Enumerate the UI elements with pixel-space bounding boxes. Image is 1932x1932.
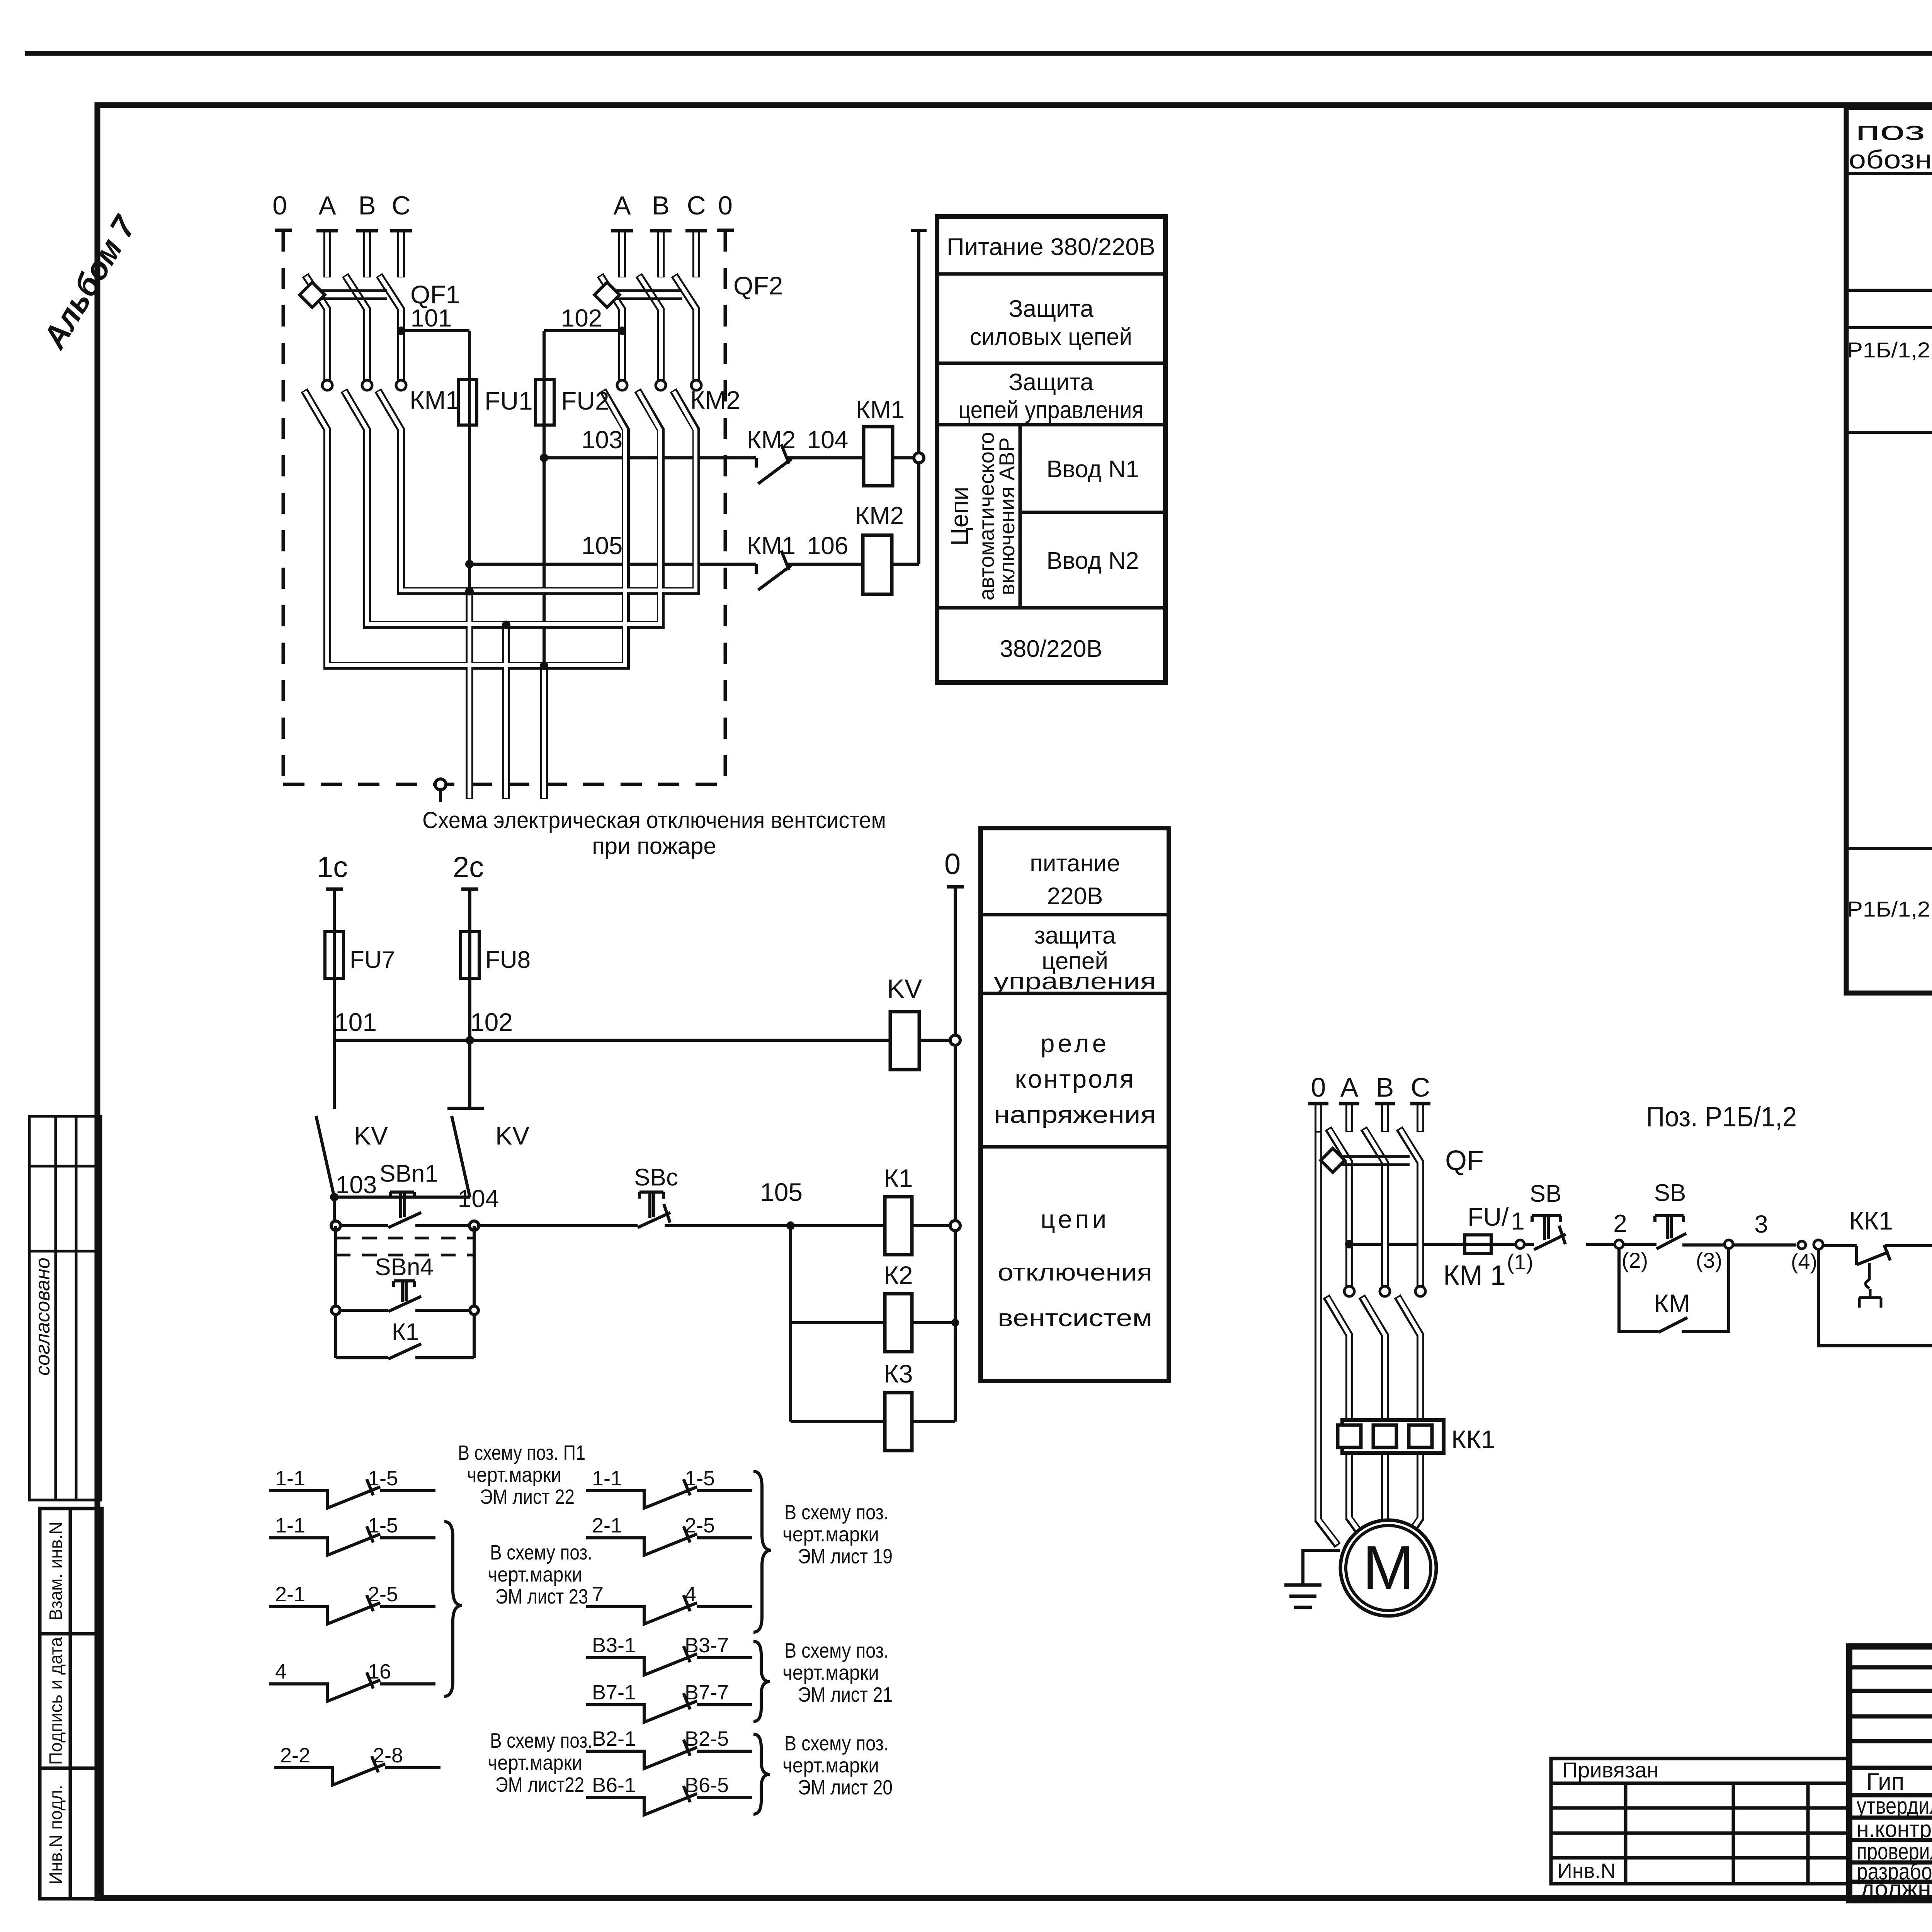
svg-text:В: В [1376,1072,1394,1102]
coil K2 [885,1294,912,1352]
svg-text:К1: К1 [884,1164,913,1192]
contact diagram A5 [274,1756,440,1785]
coil KV [890,1012,919,1070]
svg-text:В схему поз.: В схему поз. [784,1732,889,1755]
contact diagram A4 [269,1672,435,1701]
svg-text:1-5: 1-5 [368,1467,398,1490]
svg-text:103: 103 [336,1171,377,1199]
svg-text:FU7: FU7 [350,947,395,973]
title block privyazan table [1551,1759,1849,1884]
svg-text:SBn4: SBn4 [375,1254,434,1281]
svg-text:QF2: QF2 [733,271,783,300]
brace group A [444,1522,462,1696]
QF1 handle square [299,282,325,307]
motor power hollow outer [1318,1103,1420,1546]
KV NO contact [316,1040,334,1197]
svg-text:КК1: КК1 [1849,1206,1893,1235]
svg-text:ЭМ лист 20: ЭМ лист 20 [798,1776,893,1799]
svg-text:А: А [1340,1072,1359,1102]
svg-text:В7-7: В7-7 [685,1681,729,1704]
svg-text:силовых цепей: силовых цепей [970,324,1132,350]
svg-text:согласовано: согласовано [32,1257,54,1376]
svg-text:при пожаре: при пожаре [592,833,716,859]
svg-text:2-1: 2-1 [592,1514,622,1537]
neutral bus of coils [911,230,927,564]
svg-text:Подпись и дата: Подпись и дата [46,1637,66,1765]
K3 row [791,1420,955,1423]
component table grid [1846,107,1932,993]
svg-text:1: 1 [1511,1207,1525,1235]
node 4 connector circles [1798,1241,1806,1249]
button SBn1 [388,1192,421,1228]
junction dots AVR [397,327,626,670]
AVR enclosure dashed neutral left [283,230,725,784]
svg-text:черт.марки: черт.марки [488,1751,582,1774]
svg-text:2-2: 2-2 [280,1744,310,1767]
KM selfhold branch [1619,1244,1729,1332]
svg-text:102: 102 [561,304,602,332]
svg-text:Цепи: Цепи [946,486,973,546]
svg-text:KV: KV [495,1121,529,1150]
node 1 [1516,1240,1524,1248]
svg-text:Защита: Защита [1009,296,1094,322]
svg-text:В схему поз.: В схему поз. [784,1501,889,1524]
KM2 aux NC contact [756,444,791,484]
QF motor handle square [1321,1148,1345,1172]
contact diagram B4 [586,1646,752,1675]
contact diagram B3 [586,1595,752,1624]
svg-text:1-1: 1-1 [275,1467,305,1490]
KK1 thermal element [1859,1263,1881,1308]
svg-text:Инв.N: Инв.N [1557,1859,1616,1883]
svg-text:1-5: 1-5 [685,1467,715,1490]
svg-text:ЭМ лист 22: ЭМ лист 22 [480,1485,575,1509]
svg-text:Поз. Р1Б/1,2: Поз. Р1Б/1,2 [1646,1102,1797,1133]
svg-text:FU2: FU2 [561,386,609,415]
fire wire FU8 vertical [468,889,471,1040]
wire 101 rail fire [334,1039,955,1042]
svg-text:КМ: КМ [1654,1289,1690,1318]
neutral pass circle on dashed bottom [435,779,446,790]
svg-text:М: М [1362,1533,1414,1602]
left lower stamp table [40,1509,102,1899]
contact K1 row [336,1344,474,1359]
svg-text:7: 7 [592,1583,604,1606]
svg-text:KV: KV [354,1121,388,1150]
svg-text:SBc: SBc [634,1164,678,1191]
svg-text:104: 104 [807,426,849,454]
svg-text:2-1: 2-1 [275,1583,305,1606]
button SB stop [1532,1216,1566,1250]
fire wire FU7 vertical [333,889,336,1040]
svg-text:В схему поз.: В схему поз. [784,1639,889,1662]
K branch vertical [789,1226,792,1422]
svg-text:SBn1: SBn1 [379,1160,438,1187]
svg-text:Взам. инв.N: Взам. инв.N [46,1522,66,1621]
QF motor mechanical tie [1331,1156,1410,1165]
svg-text:Привязан: Привязан [1562,1758,1659,1782]
svg-text:103: 103 [582,426,623,454]
junction dot FU8 rail [466,1036,474,1044]
contact diagram B5 [586,1693,752,1722]
contact diagram A1 [269,1479,435,1508]
motor power hollow core [1318,1104,1420,1544]
svg-text:4: 4 [685,1583,696,1606]
svg-text:4: 4 [275,1660,287,1683]
svg-text:380/220В: 380/220В [1000,636,1102,662]
svg-text:2-5: 2-5 [685,1514,715,1537]
svg-text:FU1: FU1 [485,386,533,415]
svg-text:0: 0 [944,848,961,881]
svg-text:С: С [391,191,410,220]
contact diagram A3 [269,1595,435,1624]
svg-text:SB: SB [1530,1180,1562,1207]
junction dot control tap [1345,1240,1354,1248]
svg-text:2-8: 2-8 [373,1744,403,1767]
brace group B3 [753,1734,770,1814]
QF2 handle square [594,282,619,307]
svg-text:ЭМ лист22: ЭМ лист22 [495,1773,584,1796]
KM selfhold NO contact [1658,1318,1687,1332]
junction dot 103 [330,1193,338,1201]
svg-text:0: 0 [718,191,733,220]
power poles hollow outer [304,230,696,799]
AVR enclosure dashed neutral right [724,230,727,784]
svg-text:должн.: должн. [1861,1876,1932,1901]
svg-text:Р1Б/1,2: Р1Б/1,2 [1847,338,1930,362]
QF2 lower contact circles [617,380,627,390]
svg-text:обозн: обозн [1849,145,1932,174]
wire 106 [788,563,863,566]
svg-text:управления: управления [994,968,1156,994]
svg-text:0: 0 [272,191,287,220]
fuse FU motor [1465,1235,1491,1253]
svg-text:А: А [613,191,631,220]
wire node4 to KK1 [1823,1246,1932,1265]
svg-text:101: 101 [411,304,452,332]
motor control tap wire [1349,1243,1465,1246]
node circle SBn1 right [469,1221,479,1230]
junction dots SBn4 row [332,1306,340,1315]
svg-text:КМ1: КМ1 [747,532,796,560]
ground symbol [1284,1585,1321,1607]
svg-text:Ввод N2: Ввод N2 [1046,548,1139,574]
svg-text:3: 3 [1754,1210,1768,1238]
neutral terminal cap right [717,229,734,232]
coil KM2 [863,535,892,594]
wire KM1 coil to node [893,456,919,459]
terminal caps motor [1308,1102,1430,1105]
wire KM2 coil to bus [892,563,919,566]
svg-text:ЭМ лист 23: ЭМ лист 23 [495,1585,588,1608]
svg-text:KV: KV [887,974,922,1003]
svg-text:вентсистем: вентсистем [998,1305,1152,1332]
svg-text:В: В [358,191,376,220]
terminal caps right group [611,229,707,233]
svg-text:защита: защита [1034,922,1116,949]
junction dot K2 rail [951,1319,959,1327]
svg-text:2-5: 2-5 [368,1583,398,1606]
QF1 lower contact circles [322,380,701,390]
svg-text:КМ1: КМ1 [856,396,905,423]
QF2 mechanical tie [604,291,682,299]
HL branch [1818,1245,1932,1346]
contact diagram B1 [586,1479,752,1508]
wire 104 [788,456,864,459]
node circle after KM1 coil [914,453,924,463]
svg-text:КМ2: КМ2 [747,426,796,454]
svg-text:В6-5: В6-5 [685,1774,729,1797]
main rail 104-105 [336,1224,955,1227]
svg-text:С: С [687,191,706,220]
KK1 heater block [1342,1420,1444,1453]
svg-text:поз: поз [1855,116,1925,146]
svg-text:ЭМ лист 21: ЭМ лист 21 [798,1683,893,1706]
svg-text:цепи: цепи [1041,1205,1109,1233]
svg-text:К3: К3 [884,1359,913,1388]
svg-text:1с: 1с [317,851,348,884]
node circle KV rail [950,1035,960,1045]
brace group B1 [753,1471,771,1632]
wire FU1 drop [468,331,471,591]
QF1 mechanical tie [309,291,387,299]
svg-text:102: 102 [470,1008,513,1036]
coil KM1 [864,427,893,486]
svg-text:черт.марки: черт.марки [488,1563,582,1586]
svg-text:КК1: КК1 [1451,1425,1495,1454]
svg-text:FU8: FU8 [485,947,531,973]
svg-text:цепей управления: цепей управления [958,397,1144,423]
svg-text:КМ1: КМ1 [410,386,460,414]
main title block grid [1849,1646,1932,1900]
svg-text:(3): (3) [1696,1248,1722,1272]
svg-text:QF: QF [1445,1145,1484,1176]
button SBc [638,1192,670,1228]
wire node2 segment [1586,1244,1796,1245]
svg-text:черт.марки: черт.марки [782,1523,879,1546]
svg-text:FU/: FU/ [1468,1202,1509,1231]
svg-text:В схему поз. П1: В схему поз. П1 [458,1441,585,1464]
svg-text:1-1: 1-1 [275,1514,305,1537]
contact diagram A2 [269,1526,435,1555]
mechanical link dashed [336,1238,474,1255]
svg-text:КМ 1: КМ 1 [1443,1260,1506,1291]
svg-text:Ввод N1: Ввод N1 [1046,456,1139,483]
KK1 NC contact [1857,1245,1890,1265]
svg-text:А: А [318,191,336,220]
svg-text:0: 0 [1311,1072,1326,1102]
wire 102 [544,329,622,332]
svg-text:101: 101 [334,1008,377,1036]
svg-text:1-5: 1-5 [368,1514,398,1537]
junction dot K branch [786,1221,795,1230]
AVR enclosure dashed bottom [283,783,725,786]
svg-text:16: 16 [368,1660,391,1683]
svg-text:(1): (1) [1507,1250,1533,1274]
svg-text:черт.марки: черт.марки [467,1463,561,1486]
terminal caps left group [316,229,412,233]
wire 101 [401,329,469,332]
KV NC contact [447,1040,484,1197]
button SB start [1655,1216,1686,1249]
fuse FU8 [461,932,479,978]
svg-text:2с: 2с [453,851,484,884]
branch verticals SBn4 K1 [336,1226,474,1358]
svg-text:2: 2 [1613,1209,1627,1237]
svg-text:КМ2: КМ2 [855,502,904,529]
KM1 aux NC contact [756,551,791,590]
svg-text:Гип: Гип [1866,1769,1904,1795]
svg-text:В: В [652,191,669,220]
fuse FU1 [458,379,477,425]
svg-text:Схема электрическая отключения: Схема электрическая отключения вентсисте… [422,807,886,833]
svg-text:106: 106 [807,532,849,560]
contact diagram B7 [586,1786,752,1815]
fire info table [981,828,1169,1381]
wire fuse to node1 [1491,1243,1534,1246]
neutral rail fire [954,887,957,1422]
svg-text:включения АВР: включения АВР [995,437,1019,595]
svg-text:В7-1: В7-1 [592,1681,636,1704]
svg-text:КМ2: КМ2 [690,386,740,414]
svg-text:черт.марки: черт.марки [782,1754,879,1777]
svg-text:н.контр.: н.контр. [1857,1816,1932,1842]
svg-text:Инв.N подл.: Инв.N подл. [46,1785,66,1884]
power poles hollow core [305,231,696,798]
svg-text:220В: 220В [1047,883,1103,910]
left upper stamp table [29,1116,101,1500]
svg-text:В3-7: В3-7 [685,1634,729,1657]
wire 103 fire [334,1197,470,1226]
motor M [1340,1520,1436,1616]
node circle K1 rail [950,1221,960,1231]
svg-text:(2): (2) [1622,1248,1648,1272]
svg-text:Питание 380/220В: Питание 380/220В [947,234,1155,260]
node circle SBn1 left [331,1221,340,1230]
button SBn4 row [336,1281,474,1311]
svg-text:105: 105 [760,1178,803,1206]
svg-text:В схему поз.: В схему поз. [490,1541,592,1564]
QF motor lower contact circles [1344,1286,1425,1296]
svg-text:1-1: 1-1 [592,1467,622,1490]
svg-text:В схему поз.: В схему поз. [490,1729,592,1752]
neutral terminal cap left [275,229,292,232]
node 3 [1725,1240,1733,1248]
brace group B2 [753,1641,770,1721]
svg-text:К2: К2 [884,1261,913,1289]
wire FU2 drop [543,331,546,666]
coil K1 [885,1197,912,1255]
svg-text:реле: реле [1041,1029,1109,1058]
wire 105 [469,563,756,566]
svg-text:В3-1: В3-1 [592,1634,636,1657]
node 2 [1615,1240,1623,1248]
svg-text:утвердил: утвердил [1857,1793,1932,1819]
svg-text:В2-1: В2-1 [592,1727,636,1750]
AVR info table [937,216,1165,682]
ground wire [1303,1550,1340,1584]
contact diagram B2 [586,1526,752,1555]
svg-text:С: С [1411,1072,1430,1102]
sheet top line [25,51,1932,56]
svg-text:105: 105 [582,532,623,560]
svg-text:Защита: Защита [1009,369,1094,396]
svg-text:Р1Б/1,2: Р1Б/1,2 [1847,897,1930,921]
wire 103 [544,456,756,459]
fuse FU7 [325,932,344,978]
svg-text:отключения: отключения [998,1259,1152,1286]
coil K3 [885,1393,912,1451]
contact diagram B6 [586,1740,752,1769]
svg-text:питание: питание [1030,850,1120,877]
fuse FU2 [536,379,554,425]
svg-text:В2-5: В2-5 [685,1727,729,1750]
svg-text:черт.марки: черт.марки [782,1661,879,1684]
svg-text:SB: SB [1654,1180,1686,1206]
svg-text:104: 104 [458,1185,499,1213]
svg-text:В6-1: В6-1 [592,1774,636,1797]
svg-text:контроля: контроля [1015,1065,1135,1093]
svg-text:ЭМ лист 19: ЭМ лист 19 [798,1545,893,1568]
svg-text:К1: К1 [392,1319,419,1345]
K2 row [791,1321,955,1324]
svg-text:(4): (4) [1791,1249,1817,1274]
svg-text:напряжения: напряжения [994,1102,1156,1128]
